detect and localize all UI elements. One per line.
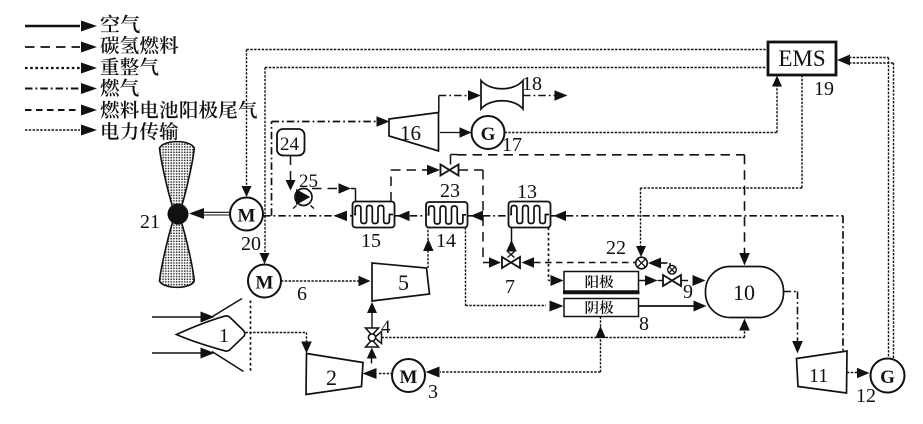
heat exchanger / reformer 13 <box>509 202 551 228</box>
label 21 <box>140 211 160 233</box>
fuel tank 24 <box>277 129 305 156</box>
legend: reformed gas line <box>25 57 159 75</box>
label 8 <box>639 313 649 335</box>
nozzle 18 <box>481 81 523 110</box>
svg-text:G: G <box>880 367 895 388</box>
svg-text:G: G <box>481 124 496 145</box>
svg-text:19: 19 <box>814 78 834 100</box>
legend: hydrocarbon fuel line <box>25 36 178 54</box>
legend: fuel-cell anode tail gas line <box>25 100 257 118</box>
motor M3 <box>392 359 425 392</box>
shaft: motor M6 to compressor 5 <box>281 276 371 286</box>
svg-text:20: 20 <box>241 233 261 255</box>
wire: combustor 10 outlet to turbine 11 (fuel gas) <box>784 292 803 354</box>
turbine 11 <box>797 351 848 393</box>
svg-text:10: 10 <box>733 280 755 305</box>
svg-text:5: 5 <box>398 270 409 295</box>
fuel cell 8: cathode <box>564 299 639 317</box>
wire: nozzle 18 exhaust out (fuel gas) <box>523 90 568 101</box>
wire: generator G17 to EMS (electric) <box>505 76 783 133</box>
wire: valve 7 up into reformer 13 <box>506 228 517 252</box>
wire: valve 4 up into compressor 5 <box>367 302 377 328</box>
label 13 <box>517 181 537 203</box>
svg-text:9: 9 <box>683 281 693 303</box>
legend: electric power transmission line <box>25 122 178 140</box>
heat exchanger 14 <box>426 202 468 228</box>
fuel cell 8: anode <box>563 272 640 293</box>
label 3 <box>428 381 438 403</box>
shaft: motor M20 to fan 21 <box>189 208 231 219</box>
label 14 <box>436 230 456 252</box>
wire: EMS down to blower 22 (electric) <box>636 75 802 257</box>
label 15 <box>361 230 381 252</box>
wire: anode tail gas recirculation line 22-to-7 (anode gas) <box>522 257 637 268</box>
valve 23 <box>441 155 459 176</box>
svg-text:14: 14 <box>436 230 456 252</box>
pump 25 <box>293 189 314 209</box>
motor M20 <box>230 198 263 231</box>
label 22 <box>606 237 626 259</box>
svg-text:4: 4 <box>381 317 391 338</box>
wire: junction to blower 22 (anode gas) <box>648 258 670 272</box>
wire: compressor 2 outlet up to valve 4 <box>367 348 377 364</box>
svg-text:1: 1 <box>219 325 229 347</box>
wire: compressor 5 outlet up to heat exchanger 14 (air) <box>423 228 434 269</box>
shaft: turbine 11 to generator G12 <box>847 368 870 378</box>
wire: pump 25 to heat exchanger 15 (fuel) <box>312 183 356 201</box>
shaft: motor M3 to compressor 2 <box>363 368 393 379</box>
svg-text:EMS: EMS <box>778 46 825 71</box>
svg-text:6: 6 <box>297 283 307 305</box>
label 18 <box>522 73 542 95</box>
svg-text:12: 12 <box>856 385 876 407</box>
label 12 <box>856 385 876 407</box>
svg-text:M: M <box>400 367 418 388</box>
fan 21 <box>160 142 195 288</box>
wire: valve 9 to combustor 10 (anode gas) <box>682 275 706 286</box>
wire: tank 24 down to pump 25 (fuel) <box>286 156 296 191</box>
svg-text:11: 11 <box>809 365 828 387</box>
intake cone 1 <box>177 299 251 373</box>
label 25 <box>299 171 318 192</box>
wire: valve 23 branch down to valve 7 (fuel) <box>459 170 502 268</box>
wire: hot gas main line through heat exchangers (fuel gas, right to left) <box>263 211 843 222</box>
label 10 <box>733 280 755 305</box>
wire: anode outlet to valve 9 (anode gas) <box>639 275 663 286</box>
svg-text:18: 18 <box>522 73 542 95</box>
valve 7 <box>502 252 520 269</box>
wire: EMS to motor M6 (electric) <box>260 68 769 265</box>
wire: valve 4 bypass air to combustor 10 and cathode (air) <box>382 319 750 338</box>
label 2 <box>326 365 337 390</box>
turbine 16 <box>389 113 439 152</box>
valve 9 <box>663 266 681 287</box>
svg-text:23: 23 <box>440 180 460 202</box>
air inlet arrows into intake 1 <box>152 312 215 359</box>
svg-text:3: 3 <box>428 381 438 403</box>
combustor vessel 10 <box>706 267 784 318</box>
svg-text:2: 2 <box>326 365 337 390</box>
EMS box U19 <box>768 42 836 75</box>
wire: fuel cell power to motor M3 (electric) <box>426 317 606 378</box>
svg-text:24: 24 <box>280 134 300 155</box>
wire: cathode outlet to combustor 10 (air) <box>639 301 707 312</box>
svg-text:8: 8 <box>639 313 649 335</box>
svg-text:M: M <box>238 206 256 227</box>
generator G17 <box>472 116 505 149</box>
wire: turbine 16 exhaust to nozzle 18 (fuel gas) <box>439 90 481 112</box>
wire: valve 23 to combustor 10 (fuel gas feed) <box>457 155 750 266</box>
svg-text:M: M <box>256 273 274 294</box>
svg-text:17: 17 <box>502 134 522 156</box>
label 9 <box>683 281 693 303</box>
compressor 2 <box>306 354 363 395</box>
wire: EMS to motor M20 (electric) <box>242 50 769 198</box>
label 17 <box>502 134 522 156</box>
legend: fuel gas line <box>25 78 139 96</box>
label 1 <box>219 325 229 347</box>
wire: gas line up from junction to turbine 16 inlet (fuel gas) <box>272 116 390 216</box>
label 23 <box>440 180 460 202</box>
label 11 <box>809 365 828 387</box>
blower 22 <box>636 257 648 269</box>
label 6 <box>297 283 307 305</box>
svg-text:21: 21 <box>140 211 160 233</box>
shaft: turbine 16 to generator G17 <box>440 127 472 138</box>
legend: air line <box>25 15 140 34</box>
label 20 <box>241 233 261 255</box>
label 19 <box>814 78 834 100</box>
wire: turbine 11 exhaust up and left to heat exchanger 13 (fuel gas) <box>842 216 844 351</box>
label 4 <box>381 317 391 338</box>
svg-text:22: 22 <box>606 237 626 259</box>
wire: heat exchanger 14 outlet down to cathode inlet (air) <box>466 228 564 312</box>
wire: heat exchanger 15 to valve 23 (fuel) <box>391 165 440 202</box>
wire: intake 1 to compressor 2 (air) <box>246 333 312 354</box>
svg-text:7: 7 <box>505 276 515 298</box>
svg-text:13: 13 <box>517 181 537 203</box>
wire: reformer 13 outlet down to anode (reformed gas) <box>549 228 564 287</box>
heat exchanger 15 <box>353 202 395 228</box>
label 5 <box>398 270 409 295</box>
valve 4 (three-way) <box>366 328 382 347</box>
svg-text:16: 16 <box>400 121 421 145</box>
generator G12 <box>871 359 905 393</box>
label 16 <box>400 121 421 145</box>
label 7 <box>505 276 515 298</box>
compressor 5 <box>372 263 430 301</box>
motor M6 <box>248 265 281 298</box>
wire: generator G12 up to EMS (electric, double run) <box>837 55 894 361</box>
svg-text:15: 15 <box>361 230 381 252</box>
